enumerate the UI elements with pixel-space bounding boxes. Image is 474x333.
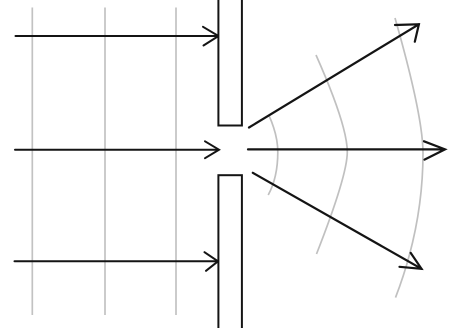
plane wavefront 3 (175, 8, 177, 316)
incident ray arrow bottom (15, 252, 219, 271)
diffracted ray arrow straight right (248, 141, 445, 159)
circular wavefront arc 3 (395, 18, 423, 298)
diffracted ray arrow down-right (253, 173, 422, 269)
barrier lower half (218, 175, 242, 333)
circular wavefront arc 1 (268, 115, 278, 195)
plane wavefront 1 (31, 8, 33, 316)
incident ray arrow middle (15, 141, 219, 158)
circular wavefront arc 2 (316, 55, 347, 254)
diffracted ray arrow up-right (249, 24, 419, 127)
incident ray arrow top (16, 27, 219, 46)
barrier upper half (218, 0, 242, 126)
plane wavefront 2 (104, 8, 106, 316)
